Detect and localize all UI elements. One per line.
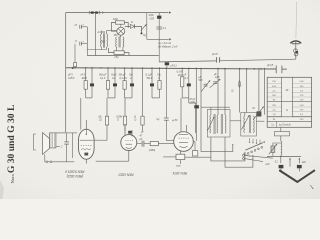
- svg-text:pF 47: pF 47: [211, 53, 218, 56]
- svg-text:A 0,031: A 0,031: [97, 31, 107, 34]
- svg-text:S: S: [286, 108, 288, 112]
- svg-text:(7k): (7k): [115, 56, 119, 59]
- svg-text:kg Gewicht: kg Gewicht: [279, 124, 291, 127]
- svg-text:a-M: a-M: [266, 164, 270, 166]
- svg-text:μF 0,5: μF 0,5: [266, 64, 274, 67]
- svg-text:0,1 2W: 0,1 2W: [120, 77, 128, 80]
- svg-text:30k μF: 30k μF: [119, 74, 127, 77]
- svg-text:220: 220: [301, 161, 306, 164]
- svg-text:Gw 2: Gw 2: [111, 74, 117, 77]
- svg-text:μF: μF: [183, 74, 187, 77]
- svg-text:50k μF: 50k μF: [99, 74, 107, 77]
- svg-text:Gw: Gw: [157, 74, 161, 77]
- svg-text:Gw: Gw: [129, 74, 133, 77]
- svg-text:(REN 1822): (REN 1822): [67, 174, 83, 178]
- svg-text:0,05: 0,05: [150, 17, 155, 20]
- svg-text:μF 0,1: μF 0,1: [170, 64, 178, 67]
- svg-text:2Ω: 2Ω: [98, 120, 102, 122]
- svg-text:μμ 50: μμ 50: [171, 120, 178, 122]
- svg-text:bei Vollausst. 2 mV: bei Vollausst. 2 mV: [158, 46, 178, 49]
- svg-text:4000: 4000: [82, 77, 88, 80]
- svg-text:(1MΩ): (1MΩ): [149, 149, 156, 152]
- svg-text:1kΩ: 1kΩ: [178, 74, 182, 77]
- svg-text:0,1 F: 0,1 F: [100, 77, 106, 80]
- svg-text:Nora G 30 und G 30 L: Nora G 30 und G 30 L: [6, 105, 17, 184]
- svg-text:nF 2: nF 2: [81, 74, 86, 77]
- svg-text:0,1 μF: 0,1 μF: [146, 74, 153, 77]
- svg-text:Uₐ: Uₐ: [272, 124, 275, 127]
- svg-text:REN S1823 d: REN S1823 d: [65, 170, 84, 174]
- svg-text:U₀ ≈ 0,2 mA: U₀ ≈ 0,2 mA: [159, 42, 172, 45]
- svg-text:0,25M: 0,25M: [116, 116, 122, 118]
- svg-text:120k: 120k: [113, 18, 119, 21]
- svg-text:REN 1874: REN 1874: [173, 171, 188, 175]
- svg-text:47 pF: 47 pF: [190, 98, 196, 101]
- svg-text:μF 5: μF 5: [67, 74, 73, 77]
- svg-text:0,05 F: 0,05 F: [68, 77, 75, 80]
- svg-text:50k F: 50k F: [147, 77, 153, 80]
- svg-text:Dr: Dr: [253, 107, 256, 110]
- svg-text:REN 1821/: REN 1821/: [117, 173, 133, 177]
